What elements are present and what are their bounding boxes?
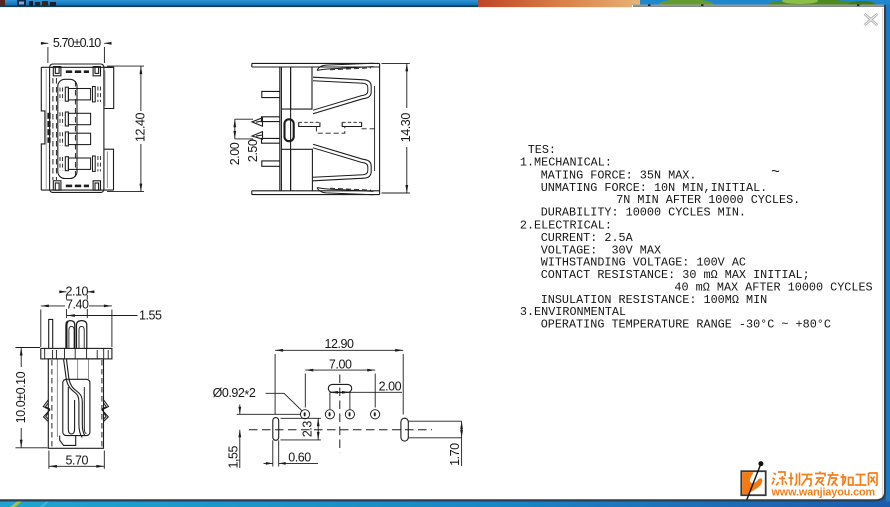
title text fragment (29, 1, 33, 6)
svg-text:~: ~ (771, 164, 780, 181)
pin 3 spring tip (252, 132, 263, 140)
top-right shell fold (317, 63, 373, 70)
svg-text:12.90: 12.90 (324, 337, 354, 351)
left peg extension lines down (273, 440, 279, 466)
dim text 10.0±0.10 (15, 367, 26, 428)
tongue dashed lines (53, 78, 76, 180)
dim 12.90 (275, 349, 403, 415)
dim 12.40 (107, 66, 144, 192)
logo square (741, 471, 765, 495)
link ovals to holes (330, 392, 350, 409)
pin 1 (262, 91, 280, 97)
logo needle head dot (758, 461, 763, 466)
lower claw spring (313, 144, 371, 181)
S-shaped contact wire (67, 360, 85, 436)
right side plate lower (104, 149, 114, 190)
prong right (77, 321, 87, 348)
left wall lines (280, 67, 282, 191)
dim 5.70 (view C) (49, 451, 104, 469)
bottom flange (252, 191, 380, 195)
dim text 2.50 (view B) (248, 140, 258, 163)
char 深 (772, 472, 787, 486)
dim 7.40 (41, 305, 112, 348)
contact 3 (65, 132, 68, 146)
right peg capsule (401, 418, 408, 441)
flange band (41, 348, 112, 359)
title bar dark bottom line (0, 5, 478, 7)
left barb (43, 400, 50, 422)
pin 4 (262, 161, 280, 166)
pin 3 bar (262, 138, 280, 143)
pin hole 1 (300, 410, 309, 419)
lower block (281, 149, 312, 191)
inner wall line (290, 67, 292, 191)
inner contact U (68, 387, 74, 434)
body outline (48, 359, 103, 448)
inner slot (63, 379, 90, 435)
inner right bar (84, 387, 86, 434)
window icon in title bar (17, 0, 26, 6)
dim 5.70±0.10 arrows and tails (42, 42, 112, 44)
pin hole 4 (371, 410, 380, 419)
left side plate (41, 67, 45, 190)
upper claw spring (313, 77, 371, 114)
svg-text:5.70±0.10: 5.70±0.10 (53, 36, 101, 50)
top dashed bar (66, 70, 89, 73)
dashed link polyline (316, 127, 344, 134)
dim 2.00 (view B) (233, 119, 253, 139)
dim 1.70 (460, 421, 463, 466)
body dashed edges (52, 360, 102, 448)
title bar colored segments (478, 0, 640, 7)
dim 5.70±0.10 extension lines (48, 47, 105, 63)
dashed line to right wall (362, 128, 377, 130)
right side plate lower inner line (106, 152, 108, 189)
right dashed pad (342, 122, 361, 126)
right barb (102, 400, 109, 422)
corner pad top-left (53, 67, 61, 76)
svg-text:www.wanjiayou.com: www.wanjiayou.com (771, 486, 876, 498)
upper block (281, 67, 312, 109)
corner pad bottom-right (93, 181, 100, 190)
centerline vertical (339, 375, 341, 453)
svg-text:1.55: 1.55 (139, 308, 162, 322)
body inner top line (41, 66, 113, 68)
left dashed pad (299, 122, 320, 126)
bottom blue strip (0, 502, 890, 507)
contacts of view A (60, 87, 100, 172)
top flange (252, 63, 380, 67)
contact 1 (65, 87, 68, 101)
svg-text:10.0±0.10: 10.0±0.10 (14, 371, 28, 423)
bottom-right shell fold (317, 188, 373, 195)
svg-text:OPERATING TEMPERATURE RANGE -3: OPERATING TEMPERATURE RANGE -30°C ~ +80°… (541, 318, 831, 332)
right side plate upper (104, 67, 114, 108)
svg-text:1,55: 1,55 (227, 445, 241, 468)
dim 2.10 (59, 290, 94, 318)
svg-text:2.50: 2.50 (246, 139, 260, 162)
dim text 12.40 (135, 111, 147, 144)
pin hole 2 (325, 410, 334, 419)
oval pad (328, 384, 351, 392)
centerline horizontal (249, 429, 432, 431)
svg-text:7.00: 7.00 (329, 357, 352, 371)
leader 1.55 (67, 314, 138, 317)
left edge solder dashes (47, 113, 50, 143)
window top border gray line (right part) (633, 5, 884, 6)
svg-text:7.40: 7.40 (66, 297, 89, 311)
dim 10.0±0.10 (16, 348, 48, 448)
dim 0.60 (264, 462, 319, 465)
right wall inner line (374, 86, 376, 171)
logo needle (747, 464, 761, 499)
chinese company name (stroke approximation) (772, 472, 877, 487)
svg-text:0.60: 0.60 (288, 451, 311, 465)
left thin shield tab (49, 319, 53, 348)
center oval slot (285, 119, 294, 141)
svg-text:Ø0.92*2: Ø0.92*2 (213, 386, 256, 402)
right wall (379, 63, 381, 194)
pin 2 bar (262, 117, 280, 122)
pin hole 3 (345, 410, 354, 419)
maroon block top-left (0, 0, 5, 5)
bottom pocket (60, 436, 76, 446)
dim text 7.40 (65, 300, 89, 310)
left peg capsule (273, 418, 279, 441)
tongue outline (58, 79, 77, 178)
char 友 (828, 472, 839, 486)
pin 2 spring tip (252, 118, 263, 126)
svg-text:5.70: 5.70 (66, 454, 89, 468)
char 圳 (789, 473, 800, 486)
svg-text:2.3: 2.3 (301, 421, 315, 438)
close X glyph (865, 14, 878, 25)
svg-text:2.00: 2.00 (379, 380, 402, 394)
bottom fold dashed line (330, 188, 371, 190)
bottom dashed bar (66, 185, 89, 188)
dim text 14.30 (401, 108, 413, 147)
leader Ø0.92*2 (266, 393, 303, 411)
svg-text:1.70: 1.70 (448, 443, 462, 466)
right side plate upper inner line (104, 71, 106, 107)
svg-text:2.00: 2.00 (228, 142, 242, 165)
char 家 (815, 472, 825, 486)
dim 14.30 (382, 63, 410, 193)
body inner bottom line (41, 189, 113, 191)
prong left (66, 321, 75, 348)
corner pad bottom-left (53, 181, 61, 190)
corner pad top-right (93, 67, 100, 76)
right peg side lines (408, 421, 462, 438)
flange castellations (45, 348, 108, 359)
char 网 (869, 473, 878, 486)
dim 1.55 (view D) (237, 405, 300, 469)
svg-text:14.30: 14.30 (399, 113, 413, 143)
char 万 (802, 475, 813, 487)
char 加 (841, 474, 854, 486)
dim 2.3 (281, 418, 321, 440)
dim 7.00 (305, 369, 375, 408)
top fold dashed line (330, 68, 371, 70)
svg-text:12.40: 12.40 (134, 112, 148, 142)
hidden gray lines (57, 360, 88, 438)
dim 2.50 (view B) (249, 139, 257, 161)
contact 2 (65, 112, 68, 126)
dim 2.00 (view D) (330, 391, 402, 394)
char 工 (855, 475, 867, 486)
logo orange S shape (742, 472, 762, 494)
connector body outline (50, 64, 104, 192)
window inner bevel line (882, 8, 883, 497)
wallpaper streak bottom-left (10, 502, 22, 507)
svg-text:2.10: 2.10 (66, 284, 89, 298)
contact 4 (65, 157, 68, 171)
